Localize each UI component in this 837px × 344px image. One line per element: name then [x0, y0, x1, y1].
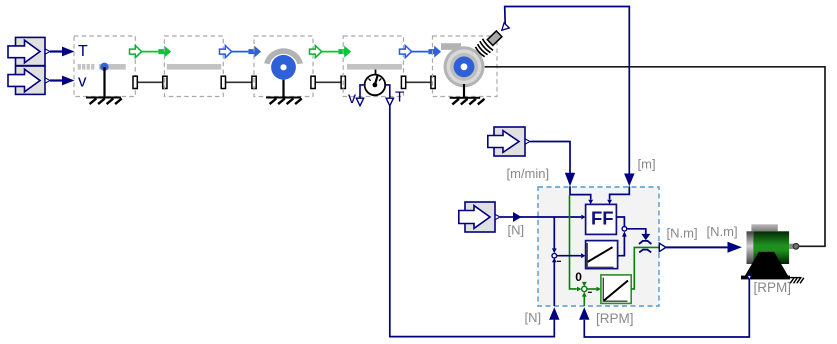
arrow [N] up — [549, 307, 559, 320]
wire winder to motor shaft (black) — [485, 67, 825, 247]
blue arrow pair 1 hollow — [220, 46, 249, 58]
wire [m] inside to FF — [607, 186, 629, 204]
blue arrow pair 2 filled — [428, 46, 441, 58]
green arrow pair 2 filled — [338, 46, 351, 58]
node junction 3 — [622, 227, 627, 232]
roller — [271, 55, 296, 80]
distance sensor arcs — [476, 39, 494, 57]
svg-text:[RPM]: [RPM] — [596, 311, 634, 326]
speed controller block (green limiter) — [601, 275, 631, 304]
wire [m/min] inside to FF — [570, 186, 593, 204]
torque coupling upper bracket — [639, 241, 651, 244]
controller dashed box — [538, 187, 659, 306]
ground 1 — [86, 67, 122, 104]
distance sensor output connector — [502, 23, 510, 31]
svg-text:FF: FF — [591, 208, 614, 229]
web bar 3 — [347, 64, 402, 70]
dashed box roller 1 — [254, 36, 313, 97]
gauge sensor — [365, 70, 386, 96]
web bar 2 — [167, 64, 222, 70]
svg-text:T: T — [395, 89, 404, 106]
damper D2 — [221, 76, 256, 88]
green arrow pair 1 hollow — [130, 46, 159, 58]
svg-text:0: 0 — [575, 270, 582, 284]
wire motor speed to [RPM] feedback — [584, 280, 749, 337]
dashed box web element 1 — [74, 36, 135, 97]
wire limiter out up to junction 3 — [618, 231, 627, 255]
motor M1 — [741, 224, 799, 279]
gauge output v — [356, 85, 364, 106]
motor speed sensor connector — [747, 275, 752, 280]
wire FF out to junction 3 — [616, 217, 624, 226]
wire v input — [50, 76, 75, 86]
green arrow pair 2 hollow — [310, 46, 339, 58]
wire [N] setpoint branch down to sum1 — [552, 217, 557, 253]
wire gauge T to [N] feedback — [390, 106, 555, 337]
svg-text:[RPM]: [RPM] — [754, 280, 792, 295]
roller web band — [264, 48, 303, 64]
wire T input — [50, 47, 75, 57]
wire [m/min] — [530, 142, 570, 174]
wire sum2 to speed controller — [587, 287, 601, 292]
svg-text:[m]: [m] — [638, 157, 656, 172]
winder web bar — [441, 43, 461, 50]
arrow [m/min] down — [565, 173, 575, 186]
wire speed setpoint green drop — [570, 195, 582, 291]
svg-text:v: v — [78, 71, 87, 90]
svg-text:[N.m]: [N.m] — [707, 224, 738, 239]
damper D4 — [401, 76, 435, 88]
wire speed controller out to output — [631, 247, 659, 289]
node blue dot — [100, 63, 108, 71]
svg-text:v: v — [348, 90, 356, 107]
damper D1 — [133, 76, 167, 88]
wire 0 to sum junction 2 — [582, 282, 587, 287]
wire controller to motor — [666, 242, 742, 253]
controller output connector — [659, 243, 666, 251]
web bar 1 — [99, 64, 126, 70]
svg-text:[N.m]: [N.m] — [667, 226, 698, 241]
input connector [N] setpoint — [459, 202, 500, 232]
arrow [RPM] up — [579, 307, 589, 320]
input connector v (u2) — [8, 66, 50, 94]
FF block — [586, 204, 617, 234]
svg-text:[N]: [N] — [525, 310, 542, 325]
dashed box web element 2 — [164, 36, 223, 97]
wire sensor to [m] — [505, 7, 630, 174]
ground 2 — [266, 80, 302, 104]
arrow [m] down — [624, 174, 634, 187]
web dashed bar — [78, 64, 95, 70]
gauge output T — [385, 85, 393, 106]
sum junction 1 — [552, 253, 561, 261]
sum junction 2 — [582, 286, 592, 292]
distance sensor body — [487, 31, 502, 46]
wire [N] setpoint — [500, 212, 586, 222]
tension controller block (limiter) — [586, 241, 618, 269]
blue arrow pair 1 filled — [248, 46, 261, 58]
input connector T (u1) — [8, 37, 50, 65]
wire [N] inside to sum1 — [552, 258, 557, 306]
damper D3 — [311, 76, 346, 88]
dashed box winder — [433, 36, 498, 97]
input connector [m/min] — [488, 127, 530, 156]
svg-text:[m/min]: [m/min] — [507, 166, 550, 181]
svg-text:T: T — [78, 43, 88, 60]
dashed box web element 3 — [343, 36, 403, 97]
green arrow pair 1 filled — [158, 46, 171, 58]
motor mount hatching — [789, 278, 804, 284]
svg-text:[N]: [N] — [508, 223, 525, 238]
torque coupling lower bracket — [639, 250, 651, 253]
wire [RPM] inside green to sum2 — [582, 292, 587, 306]
wire sum1 to limiter — [557, 253, 586, 258]
winder roll — [444, 46, 485, 87]
blue arrow pair 2 hollow — [400, 46, 429, 58]
wire junction 3 to torque arrow — [627, 229, 651, 240]
ground 3 — [450, 84, 485, 104]
